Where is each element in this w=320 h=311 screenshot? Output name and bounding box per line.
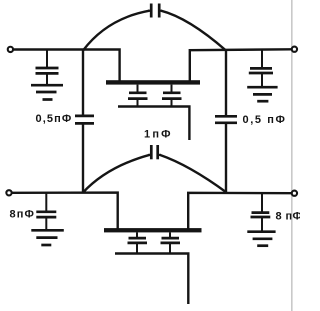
wire middle bridge arc right segment bbox=[160, 155, 227, 193]
capacitor C 0,5pF left series bbox=[75, 116, 94, 124]
capacitor top-left shunt bbox=[36, 68, 59, 73]
ground bottom-right bbox=[247, 232, 275, 246]
crystal upper electrode 1 bbox=[128, 85, 148, 107]
wire lower crystal common lead bbox=[115, 254, 188, 305]
wire top bridge arc right segment bbox=[161, 11, 226, 51]
capacitor C 1pF middle bridge bbox=[151, 145, 157, 159]
capacitor C top bridge bbox=[151, 4, 159, 18]
wire cap to ground top-right bbox=[261, 73, 263, 87]
wire cap to ground bottom-right bbox=[261, 217, 263, 231]
node A top-left junction vertical wire bbox=[82, 50, 84, 116]
crystal upper electrode 2 bbox=[162, 85, 182, 107]
crystal upper quartz plate bbox=[106, 80, 200, 84]
terminal input bottom-left bbox=[6, 190, 11, 195]
terminal output top-right bbox=[292, 47, 297, 52]
wire top bridge arc left segment bbox=[83, 11, 150, 51]
wire top bus left bbox=[14, 50, 120, 81]
wire middle bridge arc left segment bbox=[83, 155, 150, 193]
terminal input top-left bbox=[8, 47, 13, 52]
scan page edge line bbox=[291, 0, 293, 311]
svg-text:8пФ: 8пФ bbox=[10, 209, 35, 221]
wire right vertical lower half bbox=[225, 123, 227, 194]
wire stub to C bottom-right bbox=[261, 193, 263, 212]
capacitor bottom-left shunt bbox=[36, 212, 56, 217]
wire bottom bus left bbox=[12, 193, 118, 229]
wire stub to C top-right bbox=[261, 49, 263, 69]
wire stub to C top-left bbox=[46, 50, 48, 69]
wire cap to ground top-left bbox=[46, 73, 48, 84]
wire bottom bus right bbox=[188, 193, 291, 229]
wire top bus right bbox=[190, 49, 292, 80]
ground bottom-left bbox=[31, 230, 64, 245]
capacitor top-right shunt bbox=[249, 68, 273, 73]
wire upper crystal common lead bbox=[118, 107, 189, 141]
capacitor C 0,5pF right series bbox=[215, 116, 237, 123]
crystal lower electrode 1 bbox=[128, 232, 148, 253]
svg-text:0,5 пФ: 0,5 пФ bbox=[243, 114, 287, 126]
svg-text:8 пФ: 8 пФ bbox=[276, 211, 301, 223]
terminal output bottom-right bbox=[292, 191, 297, 196]
ground top-right bbox=[247, 87, 277, 101]
svg-text:0,5пФ: 0,5пФ bbox=[36, 113, 73, 125]
wire cap to ground bottom-left bbox=[45, 217, 47, 230]
wire stubs to middle bridge capacitor bbox=[148, 154, 151, 156]
wire stubs to top bridge capacitor bbox=[148, 10, 151, 12]
wire stub to C bottom-left bbox=[45, 193, 47, 212]
capacitor bottom-right shunt bbox=[251, 213, 271, 217]
crystal lower electrode 2 bbox=[161, 232, 181, 253]
wire left vertical lower half bbox=[82, 123, 84, 193]
ground top-left bbox=[31, 85, 63, 99]
svg-text:1пФ: 1пФ bbox=[144, 129, 173, 141]
node B top-right junction vertical wire bbox=[225, 50, 227, 116]
crystal lower quartz plate bbox=[104, 228, 202, 232]
